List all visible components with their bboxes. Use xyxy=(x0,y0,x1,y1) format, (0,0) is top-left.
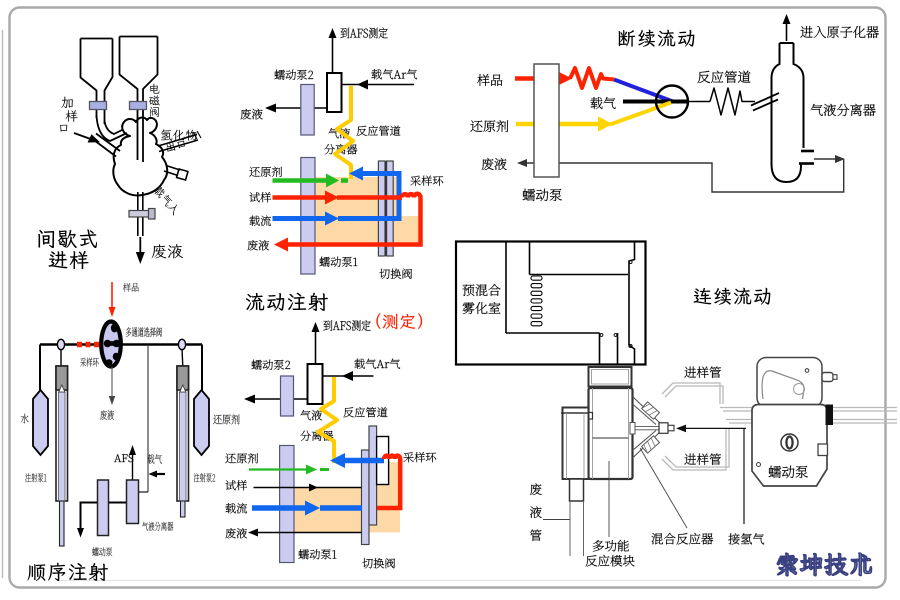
inner bottom faint line xyxy=(58,580,860,582)
E peristaltic pump rect xyxy=(98,480,109,536)
B label zaiqi Ar qi xyxy=(371,69,417,79)
carrier inlet square xyxy=(177,169,189,180)
F lower sample tube xyxy=(662,428,726,470)
label dianci-fa xyxy=(150,84,159,94)
F label rudongbeng pump xyxy=(769,466,808,478)
F label yuhunhe wuhuashi xyxy=(463,284,501,296)
funnel left xyxy=(81,39,113,125)
D label qiye fenliqi xyxy=(811,104,876,116)
title jianxieshi jinyang xyxy=(38,229,97,248)
E label zhushebeng2 xyxy=(194,473,215,482)
E main horizontal line xyxy=(40,343,202,345)
F label jieqingqi xyxy=(728,533,764,544)
B label rudongbeng2 xyxy=(275,70,314,80)
E carrier gas arrow xyxy=(153,473,165,475)
D label jinru yuanzihuaqi xyxy=(800,26,878,38)
F module main body xyxy=(589,388,633,479)
E connect line pump-separator xyxy=(81,503,127,532)
hydride outlet tube xyxy=(158,135,198,152)
E node left xyxy=(57,339,64,349)
E red sample down arrow xyxy=(111,282,113,309)
C pump2 bar xyxy=(281,376,294,416)
F module top block xyxy=(589,367,632,387)
F hydrogen arrow line xyxy=(684,427,746,429)
label feiye A xyxy=(152,244,183,258)
B pump1 bar xyxy=(301,158,315,275)
B yellow reaction tube xyxy=(335,86,353,179)
C waste line left arrow xyxy=(248,398,308,400)
F label duogongneng xyxy=(593,540,629,552)
carrier gas inlet tube xyxy=(164,166,180,176)
C sample thin line xyxy=(254,487,362,489)
F pointer duogongneng xyxy=(608,461,610,537)
F chamber outlet notches xyxy=(600,334,603,337)
B label qiye/fenliqi xyxy=(328,128,350,138)
C separator rect xyxy=(308,364,323,404)
F pump clamp xyxy=(826,405,834,426)
C red sampling loop xyxy=(377,456,400,508)
B blue path valve loop xyxy=(338,174,399,219)
C loop holder rect xyxy=(377,437,389,485)
B blue carrier arrow xyxy=(273,216,326,221)
F chamber inner walls xyxy=(506,242,635,365)
E label rudongbeng small xyxy=(92,547,112,556)
F nozzle xyxy=(630,423,635,435)
hydride outlet hatch xyxy=(193,131,201,139)
C yellow reaction tube xyxy=(318,377,337,463)
F label jinyangguan lower xyxy=(684,454,721,465)
sample-inlet pointer arrow xyxy=(74,133,92,140)
B to-AFS arrow xyxy=(332,34,334,73)
F waste tube below xyxy=(570,479,584,501)
D atomizer arrow xyxy=(786,20,788,41)
E label huanyuanji xyxy=(213,414,239,424)
label qinghuawu xyxy=(161,129,197,140)
B label dao AFS ceding xyxy=(340,27,387,38)
F hatched connector upper xyxy=(642,402,660,419)
F pump small circle xyxy=(757,463,761,467)
C labels left xyxy=(225,453,258,463)
B red sampling loop coil xyxy=(286,194,421,245)
D pump rect outline xyxy=(534,64,559,177)
left tube J-bend into flask xyxy=(97,115,128,141)
B valve bars xyxy=(378,161,385,256)
B red sample arrow xyxy=(273,195,326,200)
D label feiye xyxy=(482,158,507,170)
C valve bar low xyxy=(362,450,370,545)
label chukou xyxy=(166,139,186,153)
C waste thin line xyxy=(252,532,362,534)
D separator vessel xyxy=(772,43,804,182)
B orange zone xyxy=(315,177,418,242)
waste tube down xyxy=(138,192,143,236)
E label qiyefenliqi small xyxy=(142,522,173,531)
B label fanying guandao xyxy=(356,126,400,136)
D mixer circle xyxy=(656,86,688,118)
label zaiqiru rotated xyxy=(153,185,181,216)
E syringe pump 2 xyxy=(181,349,184,366)
F pump head xyxy=(757,358,822,408)
F pump tubing horizontal xyxy=(720,408,897,424)
C label zaiqi Ar qi xyxy=(354,359,400,369)
stopcock knob xyxy=(149,209,156,220)
solenoid valve left xyxy=(90,102,107,110)
B labels bottom xyxy=(249,167,282,177)
waste arrow xyxy=(139,237,141,255)
E red dashed sampling loop xyxy=(77,342,102,348)
F pump rotor xyxy=(781,434,798,451)
D reaction zigzag xyxy=(710,88,755,115)
D label fanying guandao xyxy=(698,71,751,83)
D label yangpin xyxy=(477,74,502,86)
F left attachment block xyxy=(563,408,589,480)
D label huanyuanji xyxy=(470,120,508,132)
D yellow reductant arrow xyxy=(516,122,598,127)
left edge artifact line xyxy=(2,30,4,578)
sample inlet tube xyxy=(93,134,121,157)
C orange zone xyxy=(294,462,400,533)
E multichannel valve xyxy=(101,322,121,367)
E left down line + water cylinder xyxy=(39,345,41,391)
C label (ceding) red xyxy=(376,313,380,329)
B carrier line with left arrow xyxy=(341,84,414,86)
B green reductant arrow xyxy=(273,178,328,183)
D red zigzag xyxy=(570,68,614,88)
funnel right xyxy=(120,37,158,163)
E waste arrow below valve xyxy=(111,367,113,399)
B separator rect xyxy=(327,73,342,112)
D waste loop polyline xyxy=(521,159,844,192)
C blue carrier arrow xyxy=(252,505,306,511)
F label jinyangguan upper xyxy=(684,367,721,378)
E label zaiqi small xyxy=(147,454,162,464)
F module left notch xyxy=(586,413,593,420)
E label caiyanghuan xyxy=(80,358,98,367)
C label qiye/fenliqi xyxy=(300,410,322,420)
C label dao AFS ceding xyxy=(323,320,370,331)
E center vertical line xyxy=(147,345,149,493)
E title shunxu zhushe xyxy=(27,563,108,581)
E syringe pump 1 xyxy=(60,349,62,366)
F upper sample tube xyxy=(662,383,720,404)
C green thin reductant arrow xyxy=(249,468,307,470)
F chamber outer rect xyxy=(456,242,646,365)
B waste line left arrow xyxy=(269,107,327,109)
D thin line to coil xyxy=(688,101,710,103)
label jiayangkou xyxy=(61,97,72,108)
D separator inlet diagonal xyxy=(751,93,779,111)
B pump2 bar xyxy=(301,85,314,136)
D title duanxu liudong xyxy=(619,30,695,47)
E label zhushebeng1 xyxy=(25,473,46,482)
E label feiye small xyxy=(100,410,114,420)
flask body xyxy=(113,118,167,196)
F mixing cone lines xyxy=(633,397,661,459)
F pump plug xyxy=(822,373,833,382)
F title lianxu liudong xyxy=(694,288,771,305)
C to-AFS arrow xyxy=(315,328,317,364)
C blue loop-out arrow xyxy=(344,458,384,464)
suokun logo xyxy=(777,553,871,576)
E separator rect xyxy=(127,480,139,524)
C valve bar high xyxy=(369,426,377,525)
E right down line + reductant cylinder xyxy=(201,345,203,391)
C carrier line with left arrow xyxy=(323,375,374,377)
E label shui xyxy=(21,414,29,424)
F pointer feiyeguan xyxy=(543,519,570,521)
E label duotongdao xuanzefa xyxy=(126,327,162,337)
F chamber nebulizer spring xyxy=(531,276,542,326)
C label fanying guandao xyxy=(343,407,387,417)
title liudongzhushe xyxy=(246,293,328,311)
D red sample arrow xyxy=(515,76,558,81)
F pump body xyxy=(752,405,827,487)
C label rudongbeng2 xyxy=(252,360,291,370)
D blue line to mixer xyxy=(614,80,673,102)
F label hunhe fanyingqi xyxy=(652,533,714,545)
F pointer hunhefanyingqi xyxy=(640,448,687,528)
D label rudongbeng xyxy=(523,189,562,201)
solenoid valve right xyxy=(130,102,147,110)
F label feiyeguan vertical xyxy=(530,483,542,495)
F hatched connector lower xyxy=(642,436,660,453)
B label feiye xyxy=(241,109,263,120)
E label AFS xyxy=(114,454,133,462)
E AFS arrow xyxy=(132,450,134,480)
stopcock bar xyxy=(129,211,149,218)
C pump1 bar xyxy=(280,446,294,563)
D separator side tubes xyxy=(801,150,814,153)
F pump side notch xyxy=(818,444,828,456)
D label zaiqi xyxy=(590,97,615,109)
D black carrier line xyxy=(623,100,688,104)
E node right xyxy=(178,339,185,349)
E label yangpin small xyxy=(123,283,139,292)
